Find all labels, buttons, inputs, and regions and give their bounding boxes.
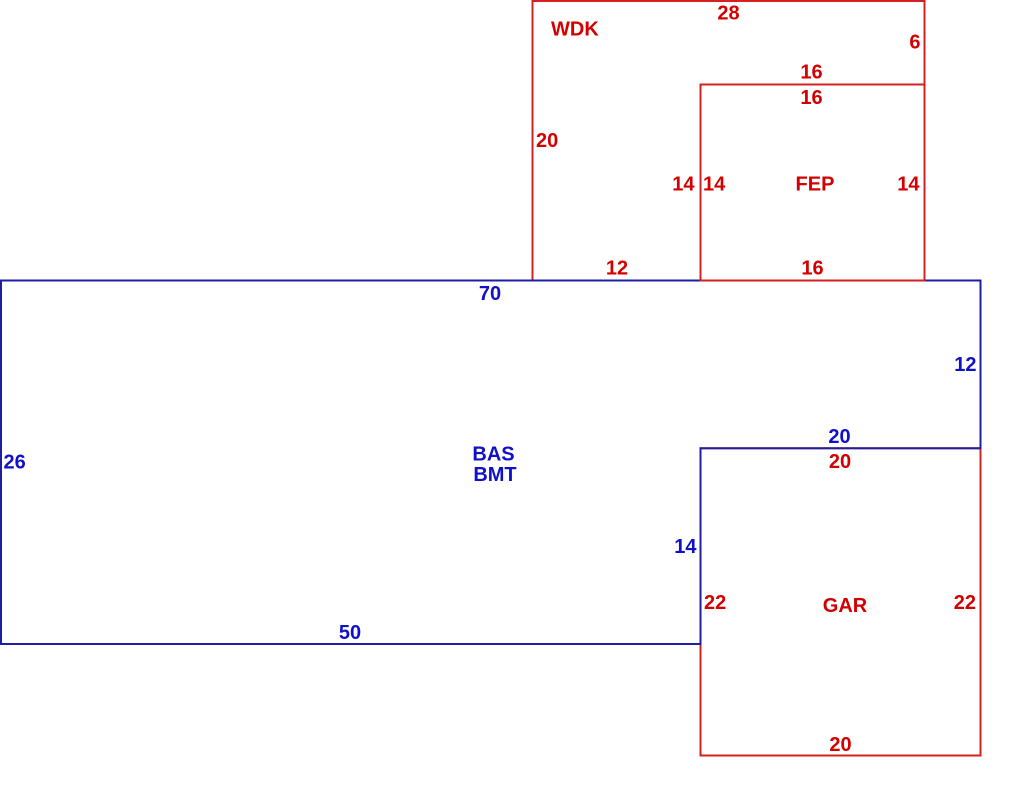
svg-text:16: 16 — [800, 87, 822, 109]
svg-text:14: 14 — [703, 174, 726, 196]
svg-text:22: 22 — [704, 592, 726, 614]
svg-text:20: 20 — [829, 451, 851, 473]
svg-text:22: 22 — [954, 592, 976, 614]
svg-text:BMT: BMT — [473, 464, 516, 486]
room GAR (garage) outline — [701, 448, 981, 755]
svg-text:70: 70 — [479, 283, 501, 305]
room BAS/BMT (basement) outline — [1, 281, 981, 645]
svg-text:14: 14 — [672, 174, 695, 196]
svg-text:12: 12 — [606, 258, 628, 280]
svg-text:16: 16 — [800, 62, 822, 84]
svg-text:16: 16 — [801, 258, 823, 280]
svg-text:GAR: GAR — [823, 595, 868, 617]
svg-text:14: 14 — [897, 174, 920, 196]
svg-text:FEP: FEP — [796, 174, 835, 196]
room WDK (wood deck) outline — [533, 1, 925, 281]
svg-text:14: 14 — [674, 536, 697, 558]
svg-text:BAS: BAS — [472, 444, 514, 466]
svg-text:12: 12 — [954, 354, 976, 376]
svg-text:6: 6 — [909, 32, 920, 54]
svg-text:20: 20 — [829, 734, 851, 756]
room FEP (enclosed porch) outline — [701, 85, 925, 281]
svg-text:50: 50 — [339, 622, 361, 644]
svg-text:WDK: WDK — [551, 18, 599, 40]
svg-text:20: 20 — [536, 130, 558, 152]
svg-text:26: 26 — [4, 452, 26, 474]
svg-text:20: 20 — [828, 426, 850, 448]
svg-text:28: 28 — [717, 3, 739, 25]
